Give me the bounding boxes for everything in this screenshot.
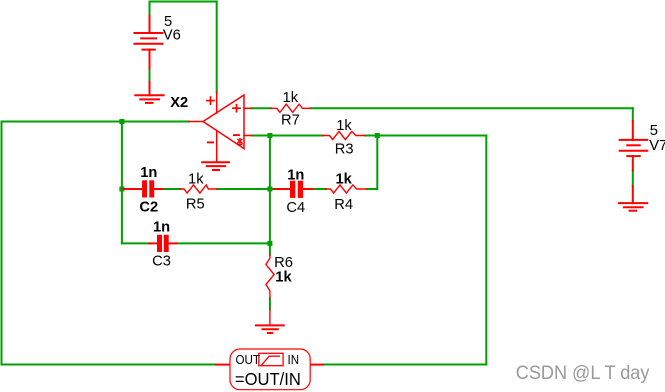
svg-text:V7: V7 [649, 138, 665, 154]
capacitor C4 [274, 188, 312, 190]
wire middle node vertical [269, 136, 271, 255]
svg-text:1n: 1n [140, 165, 157, 181]
op-amp outside minus supply mark [208, 141, 213, 143]
svg-text:IN: IN [288, 352, 300, 367]
meter block waveform ramp [262, 356, 280, 365]
battery V7 [620, 121, 648, 203]
op-amp outside plus supply mark [207, 97, 214, 104]
svg-text:X2: X2 [170, 95, 188, 111]
svg-text:=OUT/IN: =OUT/IN [235, 369, 301, 389]
op-amp positive supply stub [216, 92, 218, 113]
capacitor C2 [124, 188, 163, 190]
wire R4 up to R3 node [367, 136, 378, 190]
svg-text:C4: C4 [286, 200, 305, 216]
ground below V6 [135, 95, 163, 103]
resistor R5 [180, 185, 217, 193]
wire V6 bottom green segment [149, 69, 151, 82]
wire inverting input to node [252, 135, 270, 137]
wire R7 to V7 [311, 107, 633, 109]
op-amp asterisk mark [238, 139, 242, 145]
op-amp X2 [189, 92, 252, 162]
resistor R3 [323, 131, 365, 139]
wire C3 row left [122, 242, 149, 244]
meter block OUT/IN body [230, 349, 310, 390]
svg-text:1k: 1k [188, 172, 204, 188]
op-amp output stub [189, 121, 203, 123]
svg-text:C3: C3 [152, 253, 171, 269]
meter block waveform box [259, 353, 283, 365]
capacitor C3 [149, 242, 176, 244]
battery V6 [134, 16, 162, 95]
wire output node vertical [121, 122, 123, 244]
wire C2 to R5 [162, 188, 180, 190]
svg-text:1k: 1k [275, 270, 292, 286]
wire bottom rail right [323, 364, 486, 366]
meter block OUT/IN leads [216, 364, 323, 366]
svg-text:OUT: OUT [236, 352, 261, 367]
svg-text:CSDN @L T day: CSDN @L T day [516, 363, 650, 384]
wire V6 top lead green [149, 2, 151, 17]
wire R3 to right rail [365, 135, 487, 137]
svg-text:1n: 1n [153, 220, 170, 236]
wire V7 top lead [632, 108, 634, 121]
svg-text:1k: 1k [336, 118, 352, 134]
node junction at output [119, 119, 124, 124]
wire op-amp positive supply vertical [216, 2, 218, 93]
svg-text:R3: R3 [335, 141, 354, 157]
node junction middle row4 C3 [267, 241, 272, 246]
wire op-amp output row [2, 121, 190, 123]
resistor R7 [271, 104, 311, 112]
wire R6 green segment [269, 298, 271, 309]
ground below V7 [619, 203, 647, 211]
svg-text:1n: 1n [287, 168, 304, 184]
svg-text:V6: V6 [163, 28, 181, 44]
svg-text:C2: C2 [139, 199, 158, 215]
wire top rail V6 to op-amp supply [150, 1, 217, 3]
op-amp inside plus input mark [233, 105, 240, 112]
resistor R4 [326, 185, 367, 193]
svg-text:R7: R7 [281, 112, 300, 128]
node junction inverting input [267, 133, 272, 138]
svg-text:R4: R4 [334, 197, 353, 213]
op-amp inside minus input mark [234, 134, 239, 136]
node junction output to C2 row [119, 187, 124, 192]
wire V7 bottom green segment [632, 170, 634, 186]
resistor R6 vertical [266, 255, 274, 326]
wire left rail vertical [1, 122, 3, 365]
wire right rail vertical [485, 136, 487, 365]
svg-text:1k: 1k [336, 172, 353, 188]
op-amp negative supply stub [216, 131, 218, 163]
op-amp noninverting pin stub [244, 107, 251, 109]
wire R5 to middle node [217, 188, 270, 190]
ground below R6 [256, 325, 284, 333]
wire C3 to middle node [176, 242, 270, 244]
wire node to R3 [270, 135, 323, 137]
ground below op-amp [202, 162, 229, 170]
svg-text:1k: 1k [283, 90, 299, 106]
wire bottom rail left [2, 364, 217, 366]
op-amp inverting pin stub [244, 135, 252, 137]
svg-text:5: 5 [650, 123, 658, 139]
wire C4 to R4 [312, 188, 326, 190]
wire noninverting input to R7 [251, 107, 270, 109]
node junction R3 output [375, 133, 380, 138]
svg-text:R5: R5 [186, 197, 205, 213]
node junction middle row3 [267, 187, 272, 192]
wire node to C4 [270, 188, 275, 190]
